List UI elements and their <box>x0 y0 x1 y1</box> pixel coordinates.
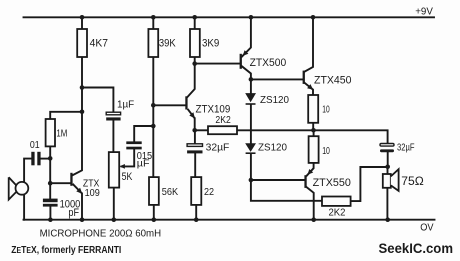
node dot rail Q3 emitter <box>249 15 254 20</box>
wire 56K bottom to 0V <box>153 205 155 220</box>
transistor Q2 emitter arrow <box>189 112 195 118</box>
wire 2K2 lower right to speaker node <box>351 167 388 201</box>
svg-text:75Ω: 75Ω <box>401 174 424 188</box>
resistor 4K7 <box>77 29 87 57</box>
capacitor 32uF right top plate <box>380 144 394 147</box>
capacitor 1uF top plate <box>106 112 120 115</box>
svg-text:2K2: 2K2 <box>215 114 231 126</box>
resistor 3K9 <box>190 29 200 57</box>
capacitor 1000pF plates <box>43 199 58 203</box>
transistor Q5 emitter arrow (PNP) <box>308 169 314 175</box>
node dot A <box>80 85 85 90</box>
svg-text:+9V: +9V <box>415 5 433 17</box>
resistor 1M <box>46 119 55 146</box>
wire 3K9 top lead <box>194 17 196 29</box>
diode D2 ZS120 triangle <box>245 143 256 152</box>
speaker LS 75 ohm <box>383 169 399 191</box>
wire Q3 base lead <box>195 63 240 65</box>
wire C 0.1 left lead to microphone <box>24 159 31 183</box>
wire 4K7 top lead <box>81 17 83 29</box>
node dot rail 3K9 <box>192 15 197 20</box>
wire Q3 emitter to +9V <box>242 17 251 56</box>
wire D2 to node E <box>250 154 252 180</box>
resistor 2K2 lower <box>322 197 351 206</box>
transistor Q1 ZTX109 bar <box>70 173 72 186</box>
svg-text:ZTX500: ZTX500 <box>250 57 287 69</box>
node dot rail Q4 collector <box>311 15 316 20</box>
wire Q1 base lead <box>50 182 70 184</box>
wire 1uF to 5K pot <box>112 120 114 152</box>
resistor 22 <box>191 177 201 205</box>
wire D1 to D2 <box>250 105 252 144</box>
svg-text:5K: 5K <box>122 171 133 183</box>
node dot 0V Q5 collector <box>311 217 316 222</box>
node dot 0V 1000pF <box>48 217 53 222</box>
svg-text:ZETEX, formerly FERRANTI: ZETEX, formerly FERRANTI <box>11 244 121 256</box>
node dot C 0.1/1M <box>48 156 53 161</box>
svg-text:1µF: 1µF <box>117 99 134 110</box>
wire C 0.1 right lead <box>40 158 50 160</box>
wire Q2 base lead <box>153 104 185 106</box>
wire Q1 emitter to 0V <box>81 194 83 220</box>
node dot 0V speaker <box>385 217 390 222</box>
node dot 0V 22 <box>194 217 199 222</box>
wire Q2 emitter down to node C <box>194 118 196 130</box>
capacitor C 0.1 plates <box>31 152 34 166</box>
transistor Q4 emitter arrow <box>307 84 313 90</box>
resistor 2K2 upper <box>208 126 237 134</box>
wire 5K wiper to C 0.15 <box>122 149 135 166</box>
wire Q4 emitter to 10 ohm <box>305 83 313 95</box>
wire node E down to 2K2 lower <box>251 180 322 201</box>
capacitor 32uF left bottom plate <box>187 150 202 153</box>
capacitor 1uF bottom plate <box>106 117 120 120</box>
svg-text:39K: 39K <box>159 37 176 49</box>
svg-text:109: 109 <box>85 187 100 199</box>
node dot C Q2 emitter <box>192 128 197 133</box>
node dot 0V Q1 emitter <box>80 217 85 222</box>
svg-text:56K: 56K <box>162 186 178 198</box>
svg-text:ZTX450: ZTX450 <box>314 75 352 87</box>
node dot rail 4K7 <box>80 15 85 20</box>
svg-text:ZS120: ZS120 <box>258 142 287 154</box>
wire node B: base bias tap to 1M <box>50 112 82 119</box>
wire 22 bottom to 0V <box>195 205 197 220</box>
transistor Q1 emitter arrow <box>76 188 82 194</box>
wire 39K top lead <box>152 17 154 29</box>
wire node E to Q5 base <box>251 179 305 181</box>
resistor 10 upper <box>308 95 318 123</box>
node dot speaker <box>385 165 390 170</box>
node dot Q2 base <box>151 103 156 108</box>
diode D1 ZS120 cathode bar <box>246 103 256 105</box>
node dot 3K9/Q3 base <box>192 61 197 66</box>
microphone MIC <box>9 177 29 199</box>
svg-text:SeekIC.com: SeekIC.com <box>379 240 454 256</box>
wire Q3 collector to node D <box>242 66 251 79</box>
svg-text:pF: pF <box>68 207 79 219</box>
wire output node to 10 ohm lower <box>313 130 315 136</box>
diode D2 ZS120 cathode bar <box>246 152 256 154</box>
node dot Q1 base <box>48 181 53 186</box>
node dot output <box>311 128 316 133</box>
wire 1M bottom to 1000pF <box>49 146 51 198</box>
wire speaker top lead <box>387 167 389 174</box>
svg-text:01: 01 <box>30 139 40 151</box>
wire Q5 collector to 0V <box>307 187 314 220</box>
wire 0V bottom rail <box>24 219 435 221</box>
wire 4K7 bottom to Q1 collector column <box>73 57 82 175</box>
svg-text:10: 10 <box>322 145 330 157</box>
capacitor 32uF right bottom plate <box>380 149 394 152</box>
capacitor 0.15uF plates <box>126 141 141 144</box>
node dot 0V 56K <box>152 217 157 222</box>
potentiometer 5K wiper arrow <box>119 164 125 169</box>
wire 2K2 upper right lead to output node <box>237 129 314 131</box>
node dot rail 39K <box>151 15 156 20</box>
wire 3K9 bottom to Q2 collector <box>188 57 195 97</box>
wire node D to D1 <box>250 79 252 93</box>
node dot E Q5 base <box>249 178 254 183</box>
svg-text:3K9: 3K9 <box>202 37 219 49</box>
svg-text:1M: 1M <box>56 129 67 140</box>
transistor Q2 ZTX109 bar <box>185 96 187 109</box>
svg-text:32µF: 32µF <box>206 141 230 153</box>
capacitor 32uF left top plate <box>187 144 202 147</box>
potentiometer 5K body <box>109 152 119 188</box>
transistor Q3 emitter arrow (PNP) <box>243 50 249 56</box>
svg-text:MICROPHONE 200Ω 60mH: MICROPHONE 200Ω 60mH <box>40 227 162 239</box>
wire 39K bottom to 56K top <box>152 57 154 177</box>
resistor 56K <box>149 177 159 205</box>
svg-text:ZTX550: ZTX550 <box>313 177 351 189</box>
resistor 10 lower <box>309 136 319 163</box>
wire 32uF left to 22 <box>194 153 196 177</box>
node dot B <box>80 110 85 115</box>
transistor Q2 emitter lead <box>188 109 195 118</box>
wire microphone bottom lead <box>23 194 25 219</box>
wire C 0.15 link <box>134 126 153 141</box>
svg-text:ZS120: ZS120 <box>260 94 289 106</box>
transistor Q1 emitter lead <box>73 184 82 194</box>
wire node D to Q4 base <box>251 78 303 80</box>
node dot D Q3 collector <box>249 77 254 82</box>
wire +9V top rail <box>24 16 435 18</box>
wire 32uF right bottom lead <box>387 152 389 167</box>
transistor Q3 ZTX500 bar <box>240 54 242 69</box>
wire 5K pot bottom to 0V <box>113 188 115 220</box>
transistor Q5 ZTX550 bar <box>304 175 306 188</box>
resistor 39K <box>148 29 158 57</box>
wire node A: 4K7/1uF tap <box>82 88 113 113</box>
svg-text:32µF: 32µF <box>397 143 415 154</box>
wire 10 ohm upper to output node <box>312 123 314 131</box>
node dot 0.15 link <box>151 124 156 129</box>
svg-text:OV: OV <box>420 222 433 234</box>
wire output node right to 32uF <box>314 130 388 144</box>
svg-text:10: 10 <box>322 103 329 115</box>
wire 1000pF bottom to 0V <box>49 205 51 219</box>
wire 2K2 upper left lead <box>195 129 208 131</box>
diode D1 ZS120 triangle <box>245 93 256 102</box>
svg-text:µF: µF <box>137 158 150 169</box>
node dot 0V pot <box>112 217 117 222</box>
wire Q4 collector to +9V <box>305 17 313 71</box>
transistor Q4 ZTX450 bar <box>303 71 305 84</box>
wire speaker bottom lead to 0V <box>386 188 388 220</box>
svg-text:2K2: 2K2 <box>329 207 346 219</box>
svg-text:4K7: 4K7 <box>90 37 108 49</box>
wire 10 ohm lower to Q5 emitter <box>307 163 314 176</box>
wire node C to 32uF left <box>194 130 196 143</box>
svg-text:22: 22 <box>204 186 214 198</box>
